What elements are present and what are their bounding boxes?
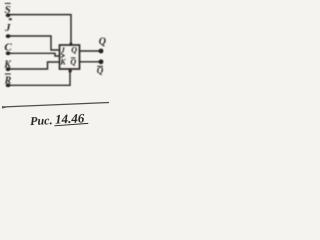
svg-text:R: R <box>4 75 12 86</box>
wire Qbar output <box>80 61 102 63</box>
svg-text:Q: Q <box>71 45 77 54</box>
pin label C chevron <box>61 54 64 58</box>
svg-text:C: C <box>4 41 12 53</box>
node K terminal <box>6 67 11 71</box>
pin tick S at box top <box>70 43 72 46</box>
svg-text:Q: Q <box>97 66 104 76</box>
node S terminal <box>6 13 11 17</box>
wire C input with small jog <box>8 53 60 56</box>
svg-text:J: J <box>4 22 11 34</box>
wire Q output <box>80 50 102 52</box>
node Q terminal <box>99 49 104 54</box>
wire K input with jog up <box>8 62 60 69</box>
wire J input with jog down <box>8 36 60 50</box>
wire S input horizontal and vertical to box top <box>8 15 71 45</box>
pin labels inside flip-flop <box>59 45 77 66</box>
node C terminal <box>6 51 11 55</box>
caption text Рис. 14.46 <box>30 110 89 128</box>
svg-text:S: S <box>5 4 11 16</box>
svg-text:K: K <box>3 59 12 70</box>
labels: input names, italic serif <box>3 3 106 86</box>
caption rule <box>2 103 109 108</box>
pin tick R at box bottom <box>69 69 72 72</box>
node R terminal <box>6 83 11 87</box>
node J terminal <box>6 34 11 38</box>
svg-text:Рис.: Рис. <box>30 113 53 128</box>
wire R input horizontal and vertical to box bottom <box>8 70 70 86</box>
svg-text:Q: Q <box>70 58 76 67</box>
svg-text:K: K <box>59 57 66 66</box>
svg-text:Q: Q <box>99 36 106 47</box>
node Qbar terminal <box>99 59 104 64</box>
flip-flop U1 body <box>60 43 80 73</box>
